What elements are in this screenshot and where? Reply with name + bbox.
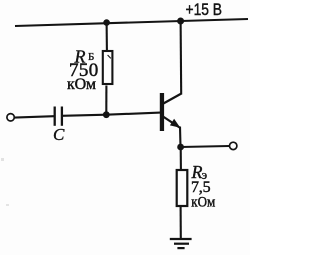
capacitor C (two plates)	[55, 107, 62, 126]
label: C	[53, 125, 65, 144]
transistor Q1: emitter lead with arrow	[163, 117, 180, 128]
input terminal (left circle)	[7, 114, 14, 121]
ground symbol	[170, 239, 192, 248]
svg-text:C: C	[53, 125, 65, 144]
value label: 750	[69, 60, 99, 81]
wire: input terminal to capacitor C	[15, 116, 55, 117]
node: junction of rail and collector wire	[177, 18, 184, 25]
transistor Q1: collector lead (diagonal)	[163, 94, 182, 105]
svg-text:7,5: 7,5	[191, 179, 211, 196]
wire: junction to RЭ top	[180, 147, 182, 169]
value label: кОм (RБ)	[67, 76, 96, 93]
wire: rail to RБ top	[106, 22, 108, 50]
svg-text:кОм: кОм	[191, 195, 215, 211]
wire: RБ bottom to base node	[105, 86, 107, 115]
output terminal (right circle)	[230, 142, 237, 149]
wire: junction to output terminal	[181, 146, 230, 147]
value label: 7,5	[191, 179, 211, 196]
wire: RЭ bottom to ground	[180, 207, 182, 239]
label: RЭ	[191, 162, 208, 182]
node: base junction (RБ / C / base)	[103, 111, 110, 118]
svg-text:кОм: кОм	[67, 76, 96, 93]
wire: emitter to output node (vertical)	[179, 127, 182, 148]
label: +15 В supply	[186, 1, 223, 19]
wire: +15V supply rail (top horizontal)	[15, 19, 248, 26]
value label: кОм (RЭ)	[191, 195, 215, 211]
label: RБ	[74, 47, 95, 67]
resistor RЭ (body)	[177, 170, 188, 206]
resistor RБ (body)	[103, 51, 113, 84]
svg-text:+15 В: +15 В	[186, 1, 223, 19]
transistor Q1: base bar	[160, 93, 164, 131]
wire: collector to rail (vertical)	[180, 21, 183, 95]
node: junction of rail and RБ	[103, 19, 110, 26]
scan artifact marks (left edge)	[1, 158, 9, 206]
wire: capacitor to base node to transistor base	[62, 113, 161, 116]
node: emitter / output junction	[177, 144, 184, 151]
